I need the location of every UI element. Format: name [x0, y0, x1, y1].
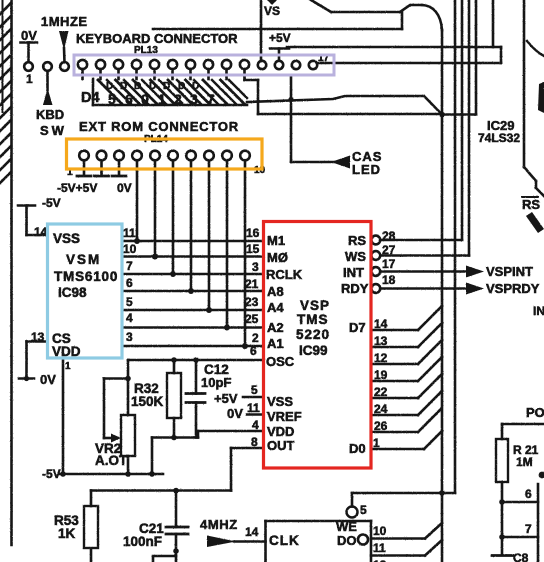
trimmer VR2 wiper: [104, 379, 128, 443]
IC box bottom right edge: [538, 472, 544, 562]
svg-text:23: 23: [245, 295, 259, 309]
svg-text:1M: 1M: [516, 455, 533, 469]
svg-text:PO': PO': [526, 405, 544, 420]
svg-text:3: 3: [126, 330, 133, 344]
svg-text:74LS32: 74LS32: [478, 131, 520, 145]
svg-text:IN: IN: [533, 304, 544, 318]
svg-text:0V: 0V: [117, 181, 132, 195]
svg-text:27: 27: [382, 243, 396, 257]
svg-text:IC99: IC99: [299, 343, 328, 358]
svg-text:OSC: OSC: [266, 354, 295, 369]
pin WS circle and wire: [371, 0, 469, 260]
capacitor C12: [186, 357, 205, 437]
svg-text:5: 5: [360, 503, 367, 517]
svg-text:D4: D4: [81, 90, 100, 106]
capacitor C21: [153, 491, 188, 562]
svg-text:6: 6: [125, 91, 133, 107]
svg-text:VSS: VSS: [53, 231, 80, 246]
svg-text:1: 1: [26, 72, 33, 86]
svg-text:17: 17: [382, 257, 396, 271]
wire A lattice to data bus: [247, 96, 476, 115]
label RS overline: [521, 197, 540, 212]
svg-text:1: 1: [373, 436, 380, 450]
pin RS circle and wire: [371, 0, 462, 244]
svg-text:DO: DO: [337, 533, 357, 548]
bus vertical V455: [454, 0, 457, 493]
svg-text:150K: 150K: [131, 394, 164, 409]
svg-text:VS: VS: [264, 4, 280, 18]
ground bars under PL14 pins 1-3: [77, 175, 126, 178]
svg-text:VREF: VREF: [267, 409, 302, 424]
svg-text:VDD: VDD: [267, 424, 294, 439]
svg-text:10: 10: [123, 242, 137, 256]
pin INT circle and VSPINT arrow: [371, 266, 484, 278]
wire VSM pin5 to VSP pin23: [122, 309, 264, 312]
svg-text:RS: RS: [522, 197, 540, 212]
wire VSM VDD pin1 down to -5V rail: [60, 358, 66, 477]
svg-text:0V: 0V: [21, 28, 37, 43]
svg-text:24: 24: [374, 402, 388, 416]
connector PL13 pins with stems: [78, 60, 249, 79]
highlight box ext rom connector: [67, 139, 263, 169]
svg-text:TMS6100: TMS6100: [54, 269, 118, 284]
svg-text:+5V: +5V: [269, 31, 291, 45]
power -5V symbol VSM: [18, 206, 48, 236]
svg-text:10pF: 10pF: [201, 375, 231, 390]
svg-text:12: 12: [374, 351, 388, 365]
junction dots staircase: [134, 238, 248, 349]
svg-text:12: 12: [373, 558, 387, 562]
svg-text:A1: A1: [267, 336, 284, 351]
svg-text:2: 2: [174, 91, 182, 107]
wire VSM pin7 to VSP pin3: [122, 273, 264, 276]
svg-text:10: 10: [373, 524, 387, 538]
wire WE to bus: [352, 490, 455, 496]
svg-text:7: 7: [207, 91, 215, 107]
svg-text:6: 6: [250, 344, 257, 358]
svg-text:VSPRDY: VSPRDY: [486, 281, 540, 296]
svg-text:CLK: CLK: [269, 533, 300, 548]
svg-text:5: 5: [251, 383, 258, 397]
wire OUT node horizontal: [91, 488, 231, 494]
wire VSM pin10 to VSP pin15: [122, 255, 264, 258]
svg-text:15: 15: [246, 242, 260, 256]
wire pin10 of bottom IC: [371, 523, 442, 539]
trimmer VR2 body: [121, 415, 135, 477]
svg-text:13: 13: [31, 330, 45, 344]
svg-text:-5V+5V: -5V+5V: [57, 181, 97, 195]
svg-text:VSP: VSP: [300, 298, 330, 313]
pin RDY circle and VSPRDY arrow: [371, 283, 484, 295]
wire VSM pin4 to VSP pin25: [122, 326, 264, 329]
wire VSP pin5 +5V: [243, 396, 264, 399]
svg-text:18: 18: [382, 273, 396, 287]
svg-text:RS: RS: [348, 233, 366, 248]
svg-text:-5V: -5V: [42, 196, 61, 210]
IC29 gate outline right edge: [524, 0, 544, 233]
connector PL13 plain pins: [258, 61, 317, 69]
svg-text:21: 21: [245, 277, 259, 291]
svg-text:D7: D7: [349, 320, 366, 335]
svg-text:A2: A2: [267, 320, 284, 335]
svg-text:11: 11: [247, 401, 260, 415]
node 0V top-left: [21, 43, 38, 71]
sheet border left edge: [0, 0, 12, 545]
svg-text:1MHZE: 1MHZE: [41, 14, 88, 29]
wire VSP D7 pin14: [371, 306, 442, 330]
highlight box IC99 VSP: [264, 222, 372, 469]
svg-text:4MHZ: 4MHZ: [200, 517, 238, 532]
svg-text:D0: D0: [349, 441, 366, 456]
svg-text:4: 4: [252, 418, 259, 432]
svg-text:7: 7: [126, 259, 133, 273]
svg-text:14: 14: [245, 525, 259, 539]
connector PL14 pins: [79, 151, 250, 346]
svg-text:0V: 0V: [40, 372, 56, 387]
wire VSP pin4 VDD: [198, 431, 264, 438]
node VS arrow stub: [267, 0, 277, 5]
wire diagonal from top into data bus: [311, 0, 442, 30]
IC bottom CLK box: [266, 521, 372, 562]
keyboard matrix lattice: [93, 79, 247, 105]
svg-text:TMS: TMS: [297, 312, 329, 327]
svg-text:SW: SW: [40, 123, 67, 138]
wire VSM pin11 to VSP pin16: [122, 240, 264, 243]
wire CAS LED from PL13: [288, 75, 350, 169]
wire pin17 of PL13 to right: [318, 47, 502, 63]
svg-text:KBD: KBD: [36, 107, 64, 122]
svg-text:25: 25: [245, 312, 259, 326]
power +5V symbol above PL13: [270, 49, 289, 61]
svg-text:EXT ROM CONNECTOR: EXT ROM CONNECTOR: [79, 119, 239, 134]
svg-text:RDY: RDY: [341, 281, 369, 296]
svg-text:14: 14: [374, 317, 388, 331]
svg-text:1: 1: [158, 91, 166, 107]
wire VSM CS pin13 to 0V: [19, 342, 48, 382]
svg-text:11: 11: [373, 541, 386, 555]
svg-text:11: 11: [123, 226, 136, 240]
svg-text:100nF: 100nF: [123, 534, 162, 549]
wire +5V rail to top right: [287, 0, 501, 47]
svg-text:22: 22: [374, 385, 388, 399]
svg-text:3: 3: [190, 91, 198, 107]
resistor R53: [84, 491, 98, 562]
wire VSP OSC pin6: [125, 360, 263, 415]
svg-text:2: 2: [252, 331, 259, 345]
wire B lattice to data bus: [258, 113, 442, 116]
node 1MHZE arrow: [59, 31, 69, 71]
wire VSP pin26: [371, 408, 442, 432]
svg-text:KEYBOARD CONNECTOR: KEYBOARD CONNECTOR: [76, 31, 238, 46]
wire VSM pin3 to VSP pin2: [122, 345, 264, 348]
svg-text:+5V: +5V: [214, 391, 238, 406]
svg-text:A4: A4: [267, 300, 284, 315]
svg-text:1: 1: [65, 361, 71, 372]
svg-text:0V: 0V: [227, 406, 243, 421]
wire VSP pin24: [371, 391, 442, 415]
svg-text:VSS: VSS: [267, 394, 293, 409]
svg-text:5: 5: [108, 91, 116, 107]
svg-text:8: 8: [251, 435, 258, 449]
svg-text:VSM: VSM: [66, 252, 101, 267]
wire C12 R32 bottom rail: [149, 438, 198, 477]
wire pin11 of bottom IC: [371, 540, 442, 556]
highlight box keyboard connector: [74, 55, 334, 75]
wire VSM pin6 to VSP pin21: [122, 290, 264, 293]
svg-text:VSPINT: VSPINT: [486, 264, 533, 279]
svg-text:WS: WS: [345, 249, 366, 264]
rail -5V bottom left: [60, 473, 163, 476]
svg-text:14: 14: [34, 225, 48, 239]
pin DO circle: [358, 535, 368, 545]
wire VSP pin22: [371, 374, 442, 398]
svg-text:C8: C8: [513, 551, 529, 562]
svg-text:16: 16: [246, 226, 260, 240]
svg-text:6: 6: [126, 276, 133, 290]
pin WE circle: [347, 493, 358, 518]
svg-text:IC98: IC98: [58, 285, 87, 300]
svg-text:RCLK: RCLK: [266, 267, 303, 282]
svg-text:13: 13: [374, 334, 388, 348]
svg-text:-5V: -5V: [42, 467, 61, 481]
svg-text:3: 3: [252, 260, 259, 274]
wire VSP pin13: [371, 323, 442, 347]
svg-text:WE: WE: [336, 519, 357, 534]
resistor R21 right edge: [492, 424, 544, 556]
svg-text:0: 0: [141, 91, 149, 107]
wire vertical link bus: [475, 0, 478, 115]
wire VSP pin11 0V: [247, 413, 264, 416]
svg-text:5: 5: [126, 295, 133, 309]
svg-text:MØ: MØ: [267, 250, 288, 265]
bus vertical V442: [439, 30, 445, 562]
wire VSP D0 pin1: [371, 431, 442, 449]
node 4MHZ arrow: [207, 536, 266, 548]
highlight box IC98 VSM: [48, 224, 123, 358]
wire VSP pin19: [371, 357, 442, 381]
wire upper block bottom edge: [153, 0, 402, 61]
svg-text:INT: INT: [343, 265, 364, 280]
wire PL13 last stem pin to lattice right: [245, 76, 259, 114]
node KBD SW arrow: [43, 62, 53, 105]
svg-text:5220: 5220: [296, 327, 330, 342]
svg-text:A8: A8: [267, 284, 284, 299]
svg-text:LED: LED: [352, 162, 381, 177]
svg-text:D: D: [149, 81, 156, 92]
svg-text:4: 4: [126, 311, 133, 325]
svg-text:A.OT: A.OT: [95, 453, 128, 468]
wire VSP pin12: [371, 340, 442, 364]
svg-text:19: 19: [374, 368, 388, 382]
svg-text:1K: 1K: [58, 526, 76, 541]
wire VSP pin8 OUT: [231, 448, 264, 491]
svg-text:28: 28: [382, 229, 396, 243]
svg-text:M1: M1: [267, 233, 285, 248]
svg-text:26: 26: [374, 419, 388, 433]
svg-text:OUT: OUT: [267, 438, 295, 453]
svg-text:6: 6: [525, 487, 532, 501]
resistor R32: [167, 357, 181, 440]
svg-text:7: 7: [525, 522, 532, 536]
